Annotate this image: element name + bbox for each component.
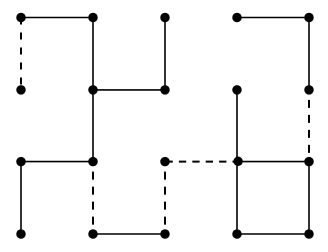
- node A3: [16, 157, 26, 167]
- wire B2-B3 (vertical, solid): [92, 90, 94, 162]
- wire A3-B3 (row 3, solid): [21, 161, 93, 163]
- wire A1-B1 (top row, solid): [21, 17, 93, 19]
- wire A3-A4 (vertical, solid): [20, 162, 22, 234]
- wire E3-E4 (vertical, solid): [308, 162, 310, 234]
- wire C3-C4 (vertical, dashed): [164, 162, 166, 234]
- node C3: [160, 157, 170, 167]
- wire B1-B2 (vertical, solid): [92, 18, 94, 90]
- node D4: [232, 229, 242, 239]
- wire E1-E2 (vertical, solid): [308, 18, 310, 90]
- wire C3-D3 (horizontal, dashed): [165, 161, 237, 163]
- wire D4-E4 (bottom row, solid): [237, 233, 309, 235]
- wire B4-C4 (bottom row, solid): [93, 233, 165, 235]
- node B2: [88, 85, 98, 95]
- node C1: [160, 13, 170, 23]
- wire D2-D3 (vertical, solid): [236, 90, 238, 162]
- node A1: [16, 13, 26, 23]
- node D1: [232, 13, 242, 23]
- node B1: [88, 13, 98, 23]
- wire A1-A2 (vertical, dashed): [20, 18, 22, 90]
- wire C1-C2 (vertical, solid): [164, 18, 166, 90]
- wire E2-E3 (vertical, dashed): [308, 90, 310, 162]
- node A4: [16, 229, 26, 239]
- wire D3-E3 (row 3, solid): [237, 161, 309, 163]
- node C2: [160, 85, 170, 95]
- node D3: [233, 157, 243, 167]
- wire D3-D4 (vertical, solid): [236, 162, 238, 234]
- node E1: [304, 13, 314, 23]
- node B3: [88, 157, 98, 167]
- node D2: [232, 85, 242, 95]
- node E4: [304, 229, 314, 239]
- node E2: [304, 85, 314, 95]
- wire B3-B4 (vertical, dashed): [92, 162, 94, 234]
- node C4: [160, 229, 170, 239]
- node B4: [88, 229, 98, 239]
- wire D1-E1 (top row, solid): [237, 17, 309, 19]
- node E3: [304, 157, 314, 167]
- node A2: [16, 85, 26, 95]
- wire B2-C2 (row 2, solid): [93, 89, 165, 91]
